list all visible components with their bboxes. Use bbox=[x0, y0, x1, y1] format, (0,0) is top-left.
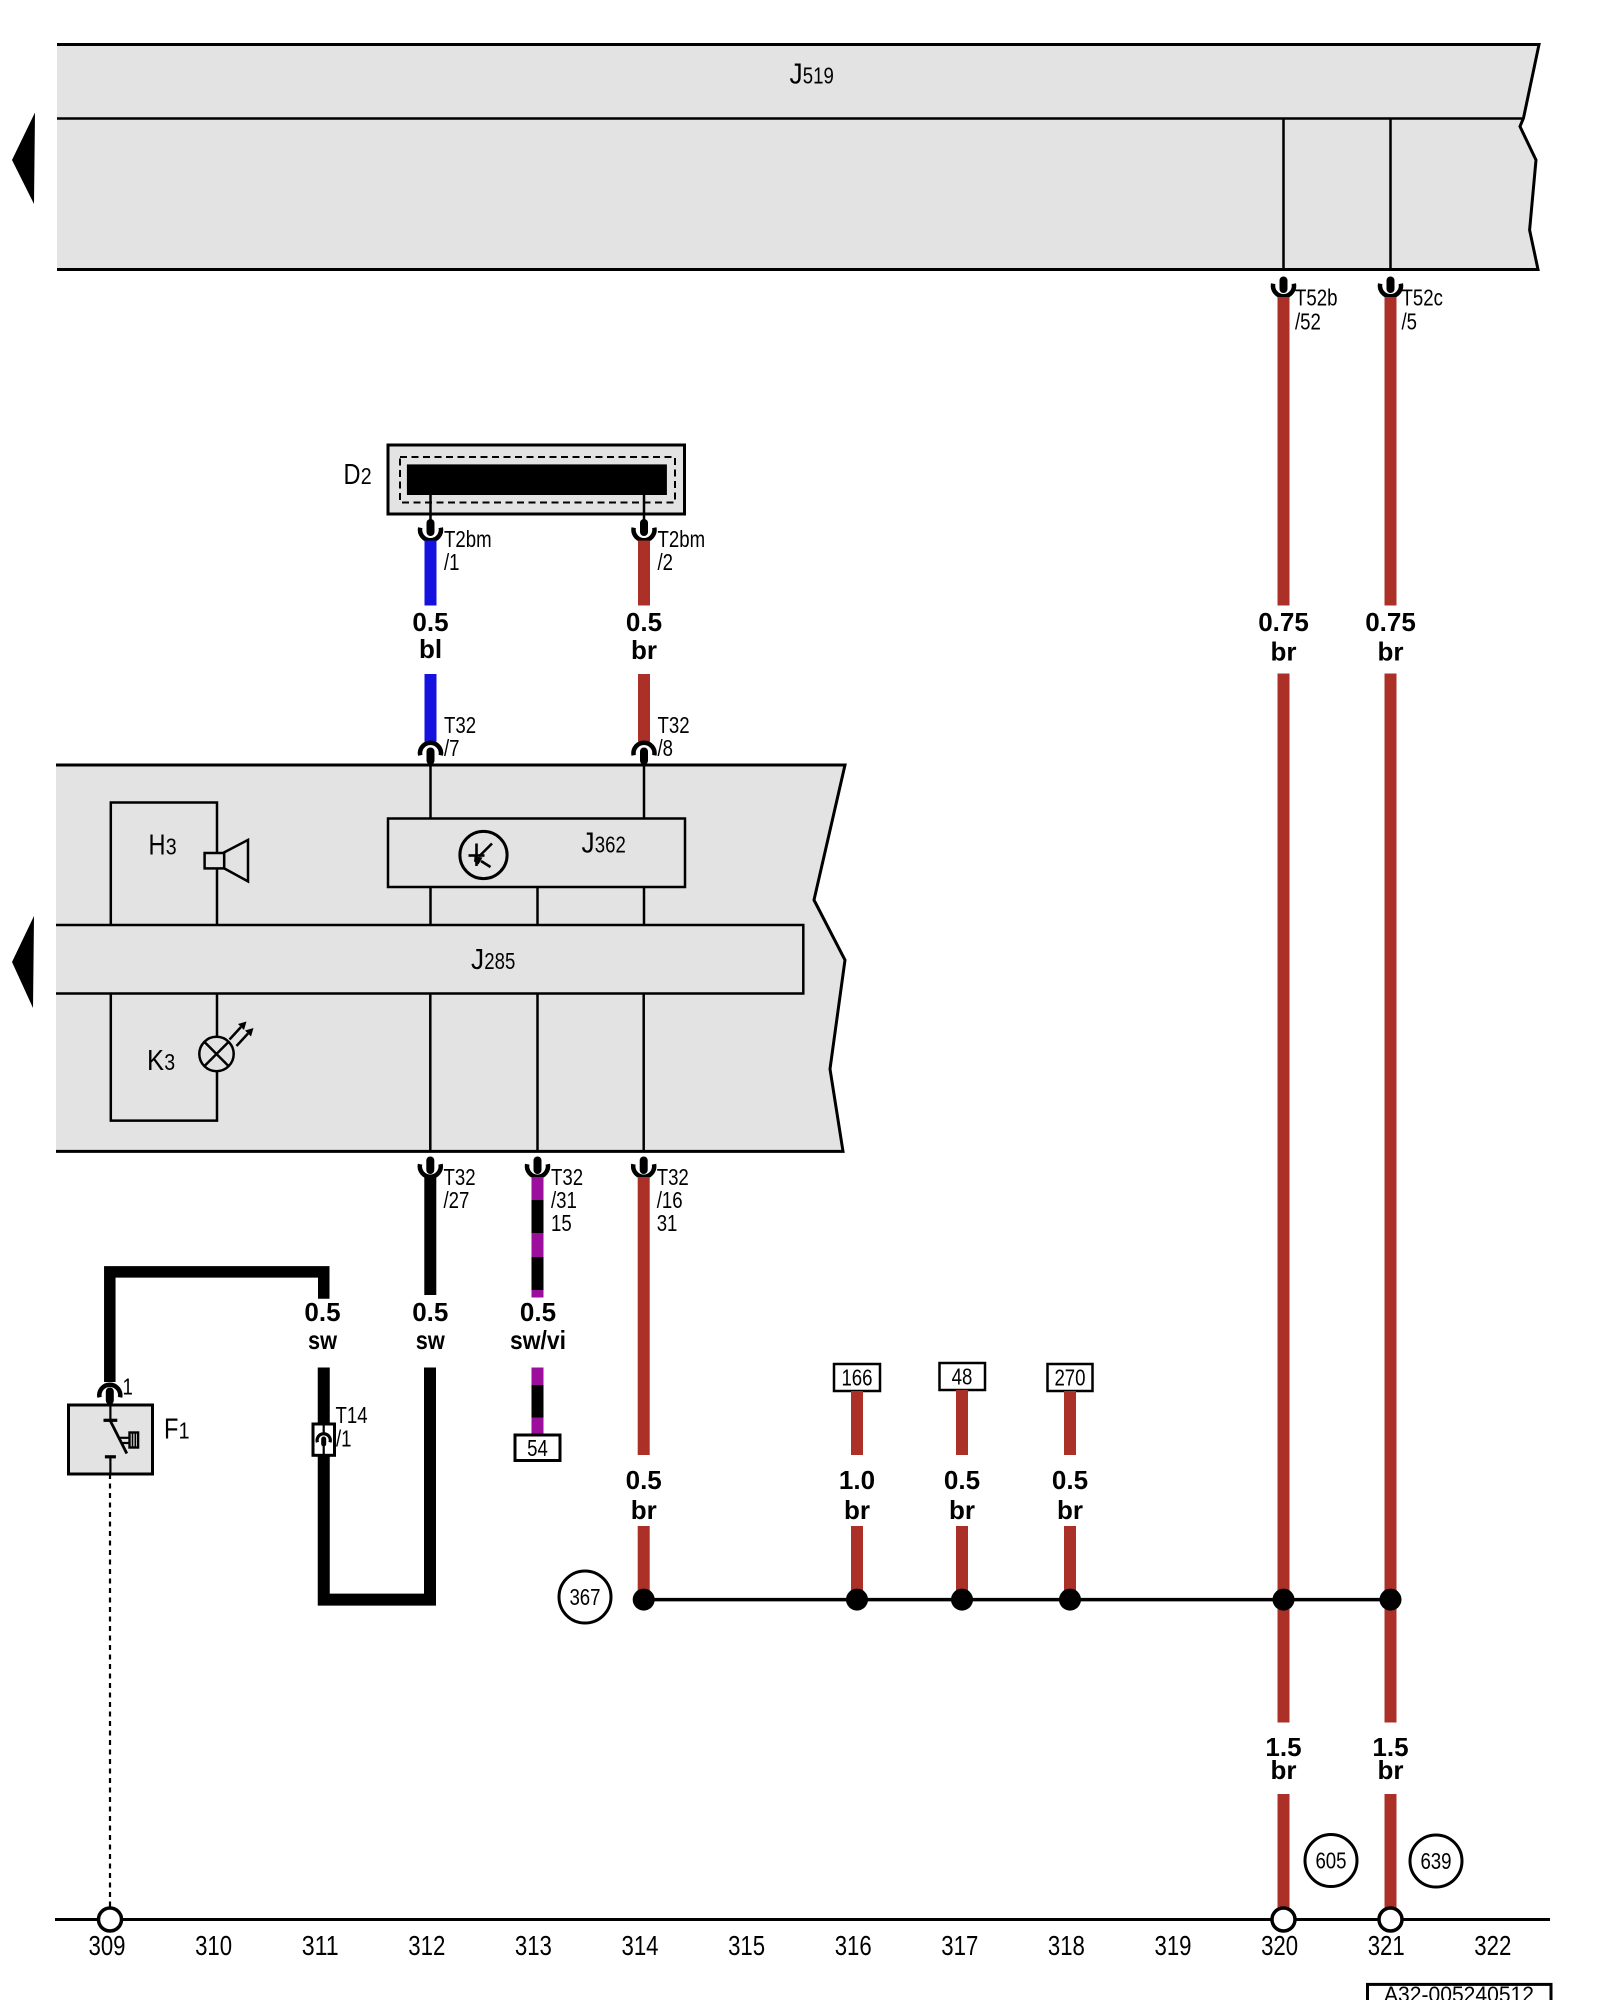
svg-text:54: 54 bbox=[527, 1435, 548, 1461]
svg-text:/2: /2 bbox=[658, 549, 674, 575]
svg-text:322: 322 bbox=[1474, 1930, 1511, 1961]
junction dot (x1070) bbox=[1059, 1589, 1081, 1611]
ground terminal circle at track 321 bbox=[1379, 1908, 1402, 1931]
wire 0.75 br upper segment from T52c bbox=[1385, 297, 1397, 606]
bottom current track line bbox=[55, 1918, 1550, 1921]
svg-text:3: 3 bbox=[166, 834, 177, 860]
svg-text:bl: bl bbox=[419, 634, 442, 664]
wire 0.5 sw top L-run to F1 bbox=[110, 1272, 324, 1382]
node label circle 639 bbox=[1410, 1835, 1462, 1887]
svg-text:0.75: 0.75 bbox=[1258, 607, 1309, 637]
junction dot (x962) bbox=[951, 1589, 973, 1611]
svg-text:J: J bbox=[471, 944, 484, 976]
switch contacts inside F1 bbox=[104, 1405, 139, 1474]
svg-text:T14: T14 bbox=[336, 1402, 368, 1428]
wire br lower segment to ground 320 bbox=[1278, 1794, 1290, 1908]
svg-text:br: br bbox=[1271, 637, 1297, 667]
svg-text:2: 2 bbox=[361, 463, 372, 489]
svg-text:3: 3 bbox=[164, 1049, 175, 1075]
svg-text:0.75: 0.75 bbox=[1365, 607, 1416, 637]
svg-text:br: br bbox=[1378, 1755, 1404, 1785]
svg-text:1.0: 1.0 bbox=[839, 1465, 875, 1495]
wire stub from box top to J362 (right) bbox=[643, 766, 646, 819]
wire 0.5 sw stub above T14 bbox=[318, 1368, 330, 1425]
svg-text:D: D bbox=[344, 459, 361, 491]
ground connection line 367 bbox=[644, 1598, 1391, 1602]
wire 1.0 br upper segment (x857) bbox=[851, 1391, 863, 1455]
svg-text:316: 316 bbox=[835, 1930, 872, 1961]
wire 0.5 sw lower U-run to T14 bbox=[324, 1368, 430, 1600]
svg-text:br: br bbox=[844, 1495, 870, 1525]
wire 0.5 sw upper segment from T32/27 bbox=[424, 1177, 436, 1295]
svg-text:J: J bbox=[790, 59, 803, 91]
svg-text:0.5: 0.5 bbox=[944, 1465, 980, 1495]
svg-text:311: 311 bbox=[302, 1930, 339, 1961]
svg-text:F: F bbox=[164, 1414, 178, 1446]
wire 1.0 br lower segment (x857) bbox=[851, 1526, 863, 1594]
svg-text:319: 319 bbox=[1155, 1930, 1192, 1961]
wire stub J285 to box bottom (middle) bbox=[536, 994, 539, 1152]
svg-text:sw/vi: sw/vi bbox=[510, 1325, 566, 1355]
connector T32/16 bbox=[633, 1157, 654, 1177]
svg-text:br: br bbox=[1271, 1755, 1297, 1785]
wire inside J519 to pin T52b/52 bbox=[1282, 120, 1285, 269]
connector pin T2bm/1 bbox=[420, 519, 441, 540]
wire br lower segment to ground 321 bbox=[1385, 1794, 1397, 1908]
svg-text:/27: /27 bbox=[444, 1187, 470, 1213]
buzzer H3 box bbox=[111, 803, 217, 926]
wire br long segment to junction (right) bbox=[1385, 674, 1397, 1723]
wire 0.5 br lower segment (x1070) bbox=[1064, 1526, 1076, 1594]
svg-text:320: 320 bbox=[1261, 1930, 1298, 1961]
svg-text:/8: /8 bbox=[658, 735, 674, 761]
direction arrow left of cluster box bbox=[12, 916, 34, 1008]
node label circle 367 bbox=[559, 1571, 611, 1623]
J519 internal divider line bbox=[57, 117, 1522, 119]
wire 0.5 bl lower segment bbox=[425, 674, 437, 742]
svg-text:639: 639 bbox=[1420, 1848, 1451, 1874]
svg-text:K: K bbox=[147, 1045, 165, 1077]
instrument cluster harness box (contains H3 J362 J285 K3) bbox=[56, 765, 845, 1151]
svg-text:0.5: 0.5 bbox=[412, 1297, 448, 1327]
svg-text:0.5: 0.5 bbox=[1052, 1465, 1088, 1495]
svg-text:48: 48 bbox=[952, 1364, 973, 1390]
connector pin T2bm/2 bbox=[634, 519, 655, 540]
svg-text:/1: /1 bbox=[336, 1426, 352, 1452]
junction dot (x1390.5) bbox=[1380, 1589, 1402, 1611]
wire inside J519 to pin T52c/5 bbox=[1389, 120, 1392, 269]
terminal box 54 bbox=[515, 1435, 560, 1461]
terminal box 270 bbox=[1048, 1364, 1093, 1391]
svg-text:sw: sw bbox=[308, 1325, 338, 1355]
lead from D2 pin 2 bbox=[643, 495, 646, 520]
diagram number box A32-005240512 bbox=[1368, 1982, 1552, 2000]
terminal box 166 bbox=[834, 1364, 880, 1391]
svg-text:T52b: T52b bbox=[1295, 285, 1338, 311]
inline connector T14/1 bbox=[313, 1424, 335, 1455]
switch F1 box (oil pressure switch) bbox=[69, 1405, 153, 1474]
thin ground lead from F1 to terminal 309 bbox=[109, 1474, 111, 1909]
wire 0.5 bl upper segment bbox=[425, 541, 437, 606]
junction dot (x857) bbox=[846, 1589, 868, 1611]
lamp icon K3 bbox=[199, 1022, 253, 1072]
connector pin T52b/52 bbox=[1273, 277, 1294, 297]
wire stub J362 to J285 (left) bbox=[429, 887, 432, 925]
terminal box 48 bbox=[940, 1363, 986, 1390]
wire 0.5 br upper segment (x1070) bbox=[1064, 1391, 1076, 1455]
wire 0.5 br lower segment (x962) bbox=[956, 1526, 968, 1594]
connector T32/27 bbox=[420, 1157, 441, 1177]
svg-text:J: J bbox=[582, 827, 595, 859]
svg-text:317: 317 bbox=[941, 1930, 978, 1961]
wire 0.5 br segment to junction 367 bbox=[638, 1526, 650, 1594]
svg-text:0.5: 0.5 bbox=[520, 1297, 556, 1327]
control unit J285 box (instrument cluster) bbox=[56, 925, 803, 994]
wire stub from box top to J362 (left) bbox=[429, 766, 432, 819]
wire 0.5 sw/vi upper segment from T32/31 bbox=[532, 1177, 544, 1298]
svg-text:0.5: 0.5 bbox=[412, 607, 448, 637]
svg-text:519: 519 bbox=[803, 63, 834, 89]
wire br long segment to junction (left) bbox=[1278, 674, 1290, 1723]
svg-text:1: 1 bbox=[179, 1418, 190, 1444]
control unit J362 box (immobilizer) bbox=[388, 819, 685, 888]
wire 0.75 br upper segment from T52b bbox=[1278, 297, 1290, 606]
svg-text:br: br bbox=[631, 1495, 657, 1525]
wire stub J362 to J285 (middle) bbox=[536, 887, 539, 925]
svg-text:A32-005240512: A32-005240512 bbox=[1384, 1982, 1534, 2000]
connector T32/31 bbox=[527, 1157, 548, 1177]
svg-text:1: 1 bbox=[123, 1374, 133, 1400]
svg-text:br: br bbox=[949, 1495, 975, 1525]
wire 0.5 br segment from T32/16 bbox=[638, 1177, 650, 1455]
svg-text:H: H bbox=[149, 830, 166, 862]
svg-text:285: 285 bbox=[484, 948, 515, 974]
ground terminal circle at track 320 bbox=[1272, 1908, 1295, 1931]
svg-text:15: 15 bbox=[551, 1210, 572, 1236]
svg-text:br: br bbox=[1057, 1495, 1083, 1525]
svg-text:367: 367 bbox=[569, 1584, 600, 1610]
wire 0.5 sw/vi lower segment to 54 bbox=[532, 1368, 544, 1436]
wire stub J285 to box bottom (right) bbox=[642, 994, 645, 1152]
svg-text:362: 362 bbox=[595, 831, 626, 857]
speaker icon H3 bbox=[205, 840, 248, 882]
connector pin T52c/5 bbox=[1380, 277, 1401, 297]
svg-text:313: 313 bbox=[515, 1930, 552, 1961]
svg-text:0.5: 0.5 bbox=[626, 1465, 662, 1495]
svg-text:31: 31 bbox=[657, 1210, 678, 1236]
junction dot at 367 line (x644) bbox=[633, 1589, 655, 1611]
svg-text:0.5: 0.5 bbox=[304, 1297, 340, 1327]
svg-text:br: br bbox=[1378, 637, 1404, 667]
wire 0.5 br upper segment (x962) bbox=[956, 1390, 968, 1455]
svg-text:/1: /1 bbox=[444, 549, 460, 575]
svg-text:sw: sw bbox=[416, 1325, 446, 1355]
svg-text:/52: /52 bbox=[1295, 309, 1321, 335]
node label circle 605 bbox=[1305, 1835, 1357, 1887]
control unit box J519 (onboard supply control unit) bbox=[57, 45, 1539, 270]
immobilizer icon in J362 bbox=[460, 831, 507, 878]
svg-text:br: br bbox=[631, 635, 657, 665]
svg-text:315: 315 bbox=[728, 1930, 765, 1961]
wire stub J362 to J285 (right) bbox=[643, 887, 646, 925]
junction dot (x1283.5) bbox=[1273, 1589, 1295, 1611]
connector T32/8 bbox=[634, 743, 655, 765]
svg-text:/7: /7 bbox=[444, 735, 460, 761]
connector pin 1 at F1 bbox=[99, 1385, 120, 1405]
wire 0.5 br upper segment (from D2/2) bbox=[638, 541, 650, 606]
svg-text:605: 605 bbox=[1315, 1848, 1346, 1874]
svg-text:T52c: T52c bbox=[1402, 285, 1443, 311]
wire 0.5 br lower segment (to T32/8) bbox=[638, 674, 650, 742]
svg-text:166: 166 bbox=[841, 1365, 872, 1391]
svg-text:0.5: 0.5 bbox=[626, 607, 662, 637]
svg-text:/5: /5 bbox=[1402, 309, 1418, 335]
display unit D2 (immobilizer warning display) bbox=[388, 445, 685, 514]
warning lamp K3 box bbox=[111, 994, 217, 1121]
ground terminal circle at track 309 bbox=[99, 1908, 122, 1931]
lead from D2 pin 1 bbox=[429, 495, 432, 520]
svg-text:321: 321 bbox=[1368, 1930, 1405, 1961]
svg-text:310: 310 bbox=[195, 1930, 232, 1961]
direction arrow left of J519 bbox=[12, 113, 35, 205]
svg-text:270: 270 bbox=[1054, 1365, 1085, 1391]
svg-text:314: 314 bbox=[622, 1930, 659, 1961]
connector T32/7 bbox=[420, 743, 441, 765]
svg-text:309: 309 bbox=[89, 1930, 126, 1961]
svg-text:312: 312 bbox=[408, 1930, 445, 1961]
wire stub J285 to box bottom (left) bbox=[429, 994, 432, 1152]
svg-text:318: 318 bbox=[1048, 1930, 1085, 1961]
